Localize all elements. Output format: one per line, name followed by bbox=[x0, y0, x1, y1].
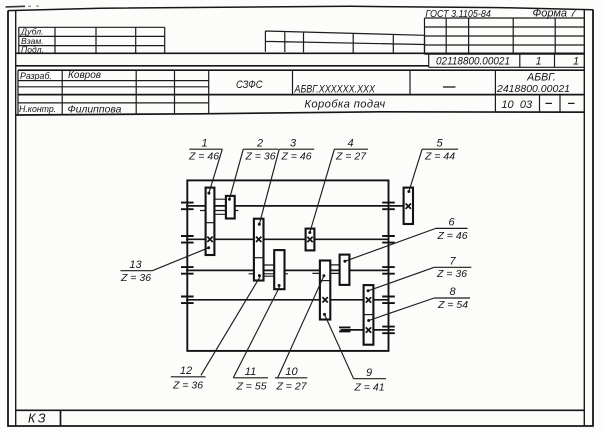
svg-text:АБВГ.: АБВГ. bbox=[526, 72, 556, 84]
svg-text:Z = 27: Z = 27 bbox=[275, 380, 307, 392]
svg-text:Коробка подач: Коробка подач bbox=[304, 99, 385, 111]
svg-text:Форма 7: Форма 7 bbox=[533, 8, 578, 20]
svg-text:СЗФС: СЗФС bbox=[236, 79, 263, 91]
svg-text:Н.контр.: Н.контр. bbox=[19, 104, 56, 114]
svg-text:Z = 46: Z = 46 bbox=[188, 151, 219, 163]
svg-text:9: 9 bbox=[366, 367, 372, 379]
svg-text:Z = 27: Z = 27 bbox=[335, 151, 367, 163]
svg-text:1: 1 bbox=[201, 137, 207, 149]
svg-text:12: 12 bbox=[180, 365, 192, 377]
svg-text:ГОСТ 3.1105-84: ГОСТ 3.1105-84 bbox=[425, 9, 491, 20]
svg-text:Z = 36: Z = 36 bbox=[172, 379, 203, 391]
svg-text:7: 7 bbox=[449, 256, 456, 268]
svg-text:02118800.00021: 02118800.00021 bbox=[436, 56, 510, 68]
svg-text:АБВГ.ХХХХХХ.ХХХ: АБВГ.ХХХХХХ.ХХХ bbox=[294, 83, 376, 95]
svg-text:2418800.00021: 2418800.00021 bbox=[496, 83, 570, 95]
svg-text:Z = 55: Z = 55 bbox=[235, 380, 266, 392]
svg-text:03: 03 bbox=[520, 99, 533, 111]
svg-text:1: 1 bbox=[536, 56, 542, 68]
svg-text:Z = 54: Z = 54 bbox=[437, 299, 468, 311]
svg-text:10: 10 bbox=[285, 366, 298, 378]
svg-text:5: 5 bbox=[436, 137, 443, 149]
svg-text:Подл.: Подл. bbox=[21, 44, 44, 54]
svg-text:Z = 46: Z = 46 bbox=[280, 151, 311, 163]
svg-text:Разраб.: Разраб. bbox=[20, 71, 52, 81]
svg-text:10: 10 bbox=[501, 99, 514, 111]
svg-text:Филиппова: Филиппова bbox=[68, 104, 122, 115]
svg-text:Ковров: Ковров bbox=[68, 70, 101, 81]
svg-text:Z = 36: Z = 36 bbox=[244, 151, 275, 163]
svg-text:Z = 41: Z = 41 bbox=[353, 381, 384, 393]
svg-text:13: 13 bbox=[129, 259, 142, 271]
svg-text:Z = 36: Z = 36 bbox=[436, 268, 467, 280]
svg-text:11: 11 bbox=[245, 366, 256, 378]
svg-text:КЗ: КЗ bbox=[28, 411, 48, 425]
svg-text:8: 8 bbox=[449, 286, 456, 298]
svg-text:6: 6 bbox=[448, 217, 455, 229]
svg-text:4: 4 bbox=[347, 137, 353, 149]
svg-text:Z = 46: Z = 46 bbox=[436, 230, 467, 242]
svg-text:Z = 36: Z = 36 bbox=[120, 272, 151, 284]
svg-text:Z = 44: Z = 44 bbox=[424, 151, 455, 163]
svg-text:2: 2 bbox=[256, 137, 263, 149]
svg-text:3: 3 bbox=[290, 137, 297, 149]
svg-text:1: 1 bbox=[573, 56, 579, 68]
